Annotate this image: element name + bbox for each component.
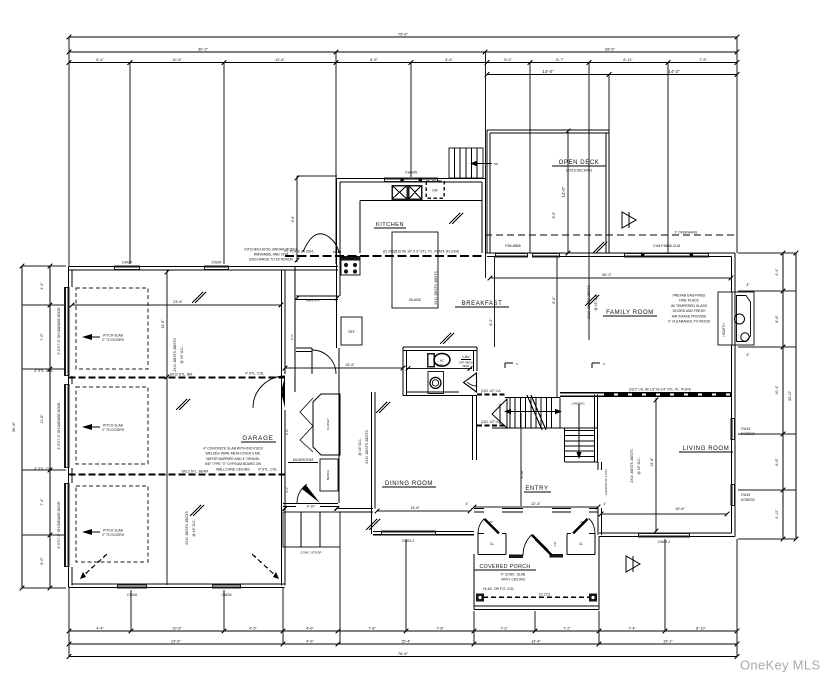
- svg-text:1/2 COL.: 1/2 COL.: [539, 593, 552, 597]
- left dimension string inner: [49, 266, 51, 588]
- front door sill west: [509, 555, 523, 558]
- svg-text:9'-0"X7'-0" OH GARAGE DOOR: 9'-0"X7'-0" OH GARAGE DOOR: [57, 402, 61, 450]
- svg-text:8'-2": 8'-2": [489, 318, 493, 326]
- right dimension string inner: [782, 253, 784, 539]
- dimension line 14'-0" / 14'-2" deck string: [487, 74, 737, 76]
- garage door 1 panel: [64, 287, 70, 376]
- porch column west: [476, 594, 484, 602]
- breakfast vertical dim: [494, 257, 496, 347]
- svg-text:WALLS AND CEILING: WALLS AND CEILING: [216, 467, 250, 471]
- svg-text:CL: CL: [490, 542, 494, 546]
- overhang dashed line: [485, 234, 737, 236]
- svg-text:PANTRY: PANTRY: [306, 299, 321, 303]
- range stove: [341, 257, 360, 276]
- svg-text:HEARTH: HEARTH: [722, 323, 726, 337]
- svg-text:2" CLEARANCE TO WOOD: 2" CLEARANCE TO WOOD: [668, 320, 711, 324]
- svg-text:3'-6": 3'-6": [285, 487, 289, 493]
- svg-text:5'-0": 5'-0": [504, 58, 512, 62]
- bottom dimension string overall 76'-6": [69, 656, 737, 658]
- kitchen east wall: [485, 179, 487, 254]
- svg-text:(2)12" LVL W/ 1/2"X9 1/4" STL.: (2)12" LVL W/ 1/2"X9 1/4" STL. PL. PLATE: [629, 388, 692, 392]
- svg-text:8'-11": 8'-11": [623, 58, 633, 62]
- svg-text:REF: REF: [348, 330, 354, 334]
- living room vertical dim: [655, 398, 657, 532]
- deck west edge: [486, 130, 488, 253]
- garage window CW2 north-left: [114, 266, 140, 271]
- family room interior dim 36'-2": [490, 277, 732, 279]
- svg-text:8'-6": 8'-6": [552, 211, 556, 219]
- window CW15 egress upper: [731, 418, 736, 440]
- svg-text:16X16 DECKING: 16X16 DECKING: [566, 169, 593, 173]
- svg-text:4": 4": [604, 502, 607, 506]
- svg-text:2' OVERHANG: 2' OVERHANG: [675, 231, 698, 235]
- toilet: [428, 354, 434, 367]
- svg-text:BREAKFAST: BREAKFAST: [462, 301, 503, 307]
- svg-text:4" CONC. SLAB: 4" CONC. SLAB: [501, 573, 526, 577]
- living room south wall: [599, 536, 735, 538]
- kitchen north wall: [337, 178, 486, 180]
- svg-text:8'-6": 8'-6": [552, 296, 556, 304]
- svg-text:@ 16" O.C.: @ 16" O.C.: [180, 346, 184, 363]
- svg-text:7'-4": 7'-4": [628, 627, 636, 631]
- svg-text:(2)12 1/2" LVL: (2)12 1/2" LVL: [481, 389, 501, 393]
- svg-text:KITCHEN: KITCHEN: [376, 222, 404, 228]
- garage corner diagonal right: [252, 554, 277, 577]
- svg-text:DOORS AND FRESH: DOORS AND FRESH: [673, 309, 706, 313]
- pitch slab note bay 3: [82, 529, 92, 535]
- porch west edge: [473, 554, 475, 610]
- entry closet east: [567, 533, 571, 535]
- dimension line top third string: [69, 62, 737, 64]
- svg-text:CLOSET: CLOSET: [326, 418, 330, 430]
- pitch slab note bay 1: [82, 334, 92, 340]
- right dimension string overall 32'-0": [795, 253, 797, 539]
- garage bay 1 dashed outline: [76, 288, 148, 369]
- svg-text:76'-6": 76'-6": [398, 651, 409, 656]
- svg-text:CW15: CW15: [741, 427, 750, 431]
- svg-text:4" STL. COL.: 4" STL. COL.: [245, 372, 265, 376]
- svg-text:RH+M: RH+M: [333, 250, 342, 254]
- svg-text:RMV64666, AND CFM: RMV64666, AND CFM: [254, 253, 288, 257]
- deck south slash mark: [593, 242, 604, 253]
- svg-text:4'-4": 4'-4": [40, 282, 44, 290]
- svg-text:CL: CL: [579, 542, 583, 546]
- left extension ticks: [22, 265, 66, 267]
- fireplace box: [732, 292, 754, 345]
- garage to mudroom door: [253, 376, 285, 408]
- svg-text:4'-6": 4'-6": [306, 640, 314, 644]
- bottom extension lines: [68, 588, 70, 657]
- breakfast east vertical dim: [556, 257, 558, 397]
- svg-text:36'-2": 36'-2": [602, 273, 612, 277]
- svg-text:@ 16" O.C.: @ 16" O.C.: [192, 519, 196, 536]
- east exterior wall upper: [734, 253, 736, 537]
- svg-text:23'-6": 23'-6": [173, 300, 183, 304]
- left dimension string overall 36'-8": [21, 266, 23, 588]
- svg-text:PREFAB GAS-FIRED: PREFAB GAS-FIRED: [673, 294, 706, 298]
- svg-text:PITCH SLAB: PITCH SLAB: [103, 424, 124, 428]
- stoop outline: [283, 512, 340, 547]
- svg-text:5/8" TYPE "X" GYPSUM BOARD ON: 5/8" TYPE "X" GYPSUM BOARD ON: [205, 462, 261, 466]
- wall lav to entry: [472, 396, 474, 461]
- lav interior dim: [406, 368, 472, 370]
- svg-text:30'-2": 30'-2": [198, 47, 209, 52]
- garage window CW2 south-right: [212, 584, 241, 589]
- pantry south wall with opening: [296, 347, 312, 349]
- svg-text:2X10 JOISTS JOISTS: 2X10 JOISTS JOISTS: [365, 429, 369, 463]
- deck stairs: [449, 148, 483, 178]
- kitchen wall west extension dim: [297, 175, 337, 177]
- front door leaf: [532, 535, 552, 556]
- dimension line top second string: [69, 51, 737, 53]
- refrigerator box: [341, 317, 362, 345]
- dining interior dim: [377, 510, 470, 512]
- steel plate wall kitchen dashed: [285, 255, 485, 257]
- extension line at x=130: [129, 63, 131, 265]
- svg-text:FIRE PLACE: FIRE PLACE: [679, 299, 700, 303]
- svg-text:DN: DN: [494, 162, 498, 166]
- stair lower arrow: [578, 404, 580, 455]
- extension line at x=224: [223, 63, 225, 265]
- svg-text:2" TO DOORS: 2" TO DOORS: [102, 338, 125, 342]
- svg-text:36'-8": 36'-8": [11, 421, 16, 432]
- svg-text:7'-9": 7'-9": [699, 58, 707, 62]
- dimension line 75'-6" overall top: [69, 36, 737, 38]
- mudroom bench: [320, 459, 338, 491]
- mudroom closet bifold door: [300, 398, 313, 452]
- extension line at x=336: [335, 52, 337, 264]
- pitch slab note bay 2: [82, 424, 92, 430]
- svg-text:7'-8": 7'-8": [368, 627, 376, 631]
- entry corner flag east: [591, 363, 593, 368]
- entry corner flag west: [504, 363, 506, 368]
- garage interior dimension 23'-6": [72, 304, 281, 306]
- mudroom dim 4'-10": [283, 506, 288, 511]
- svg-text:EGRESS: EGRESS: [741, 498, 756, 502]
- svg-text:VENT: VENT: [462, 364, 470, 368]
- kitchen sink right: [409, 186, 422, 200]
- svg-text:PITCH SLAB: PITCH SLAB: [103, 529, 124, 533]
- stair LVL dashed lower: [477, 425, 507, 427]
- svg-text:CW2#: CW2#: [222, 593, 232, 597]
- svg-text:15'-4": 15'-4": [401, 640, 411, 644]
- svg-text:CW2#: CW2#: [122, 261, 132, 265]
- svg-text:GARAGE: GARAGE: [242, 435, 273, 442]
- svg-text:15'-6": 15'-6": [345, 363, 355, 367]
- bottom dimension string second: [69, 643, 737, 645]
- svg-text:9'-6": 9'-6": [291, 215, 295, 223]
- wall jog mudroom to dining: [338, 508, 373, 510]
- extension line at x=530: [529, 63, 531, 254]
- svg-text:DINING ROOM: DINING ROOM: [385, 481, 433, 487]
- svg-text:PL. PLATE (FLUSH): PL. PLATE (FLUSH): [285, 250, 314, 254]
- svg-text:6'-6": 6'-6": [96, 58, 104, 62]
- svg-text:4": 4": [466, 502, 469, 506]
- divider wall double line: [560, 392, 732, 394]
- garage bay 3 dashed outline: [76, 486, 148, 562]
- dining south wall: [373, 534, 474, 536]
- window CU8-F6868-CU8: [624, 252, 709, 257]
- dining west wall: [371, 392, 373, 534]
- svg-text:6'-0": 6'-0": [40, 557, 44, 565]
- french door F66-8868: [495, 252, 528, 257]
- svg-text:13'-6": 13'-6": [410, 506, 420, 510]
- garage door 3 panel: [64, 483, 70, 567]
- deck north edge: [487, 129, 609, 131]
- svg-text:F66-8868: F66-8868: [505, 244, 520, 248]
- garage east wall: [281, 270, 283, 586]
- svg-text:2X10 JOISTS JOISTS: 2X10 JOISTS JOISTS: [630, 448, 634, 482]
- mudroom exterior door: [297, 484, 307, 503]
- svg-text:2" TO DOORS: 2" TO DOORS: [102, 428, 125, 432]
- svg-text:W/ TEMPERED GLASS: W/ TEMPERED GLASS: [671, 304, 708, 308]
- breakfast interior dim 15'-6": [285, 367, 403, 369]
- kitchen counter edge: [360, 200, 482, 202]
- svg-text:BENCH: BENCH: [326, 470, 330, 481]
- svg-text:15'-6": 15'-6": [675, 507, 685, 511]
- svg-text:6'-7": 6'-7": [556, 58, 564, 62]
- front door sill east: [550, 554, 564, 558]
- svg-text:7'-2": 7'-2": [500, 627, 508, 631]
- garage south wall: [69, 587, 285, 589]
- svg-text:14'-0": 14'-0": [561, 186, 566, 197]
- lav north wall: [403, 346, 477, 348]
- porch south edge: [474, 605, 599, 607]
- svg-text:2'-8": 2'-8": [553, 541, 557, 546]
- mudroom south wall: [283, 503, 338, 505]
- garage bay 2 dashed outline: [76, 387, 148, 464]
- stair direction arrow: [508, 411, 558, 413]
- garage window CW2 south-left: [117, 584, 147, 589]
- svg-text:9'-0"X7'-0" OH GARAGE DOOR: 9'-0"X7'-0" OH GARAGE DOOR: [57, 501, 61, 549]
- svg-text:ISLAND: ISLAND: [409, 298, 422, 302]
- garage structural dashed line upper: [69, 377, 286, 379]
- svg-text:4'-4": 4'-4": [775, 268, 779, 276]
- svg-text:COVERED PORCH: COVERED PORCH: [479, 564, 530, 570]
- svg-text:7'-8": 7'-8": [436, 627, 444, 631]
- porch east edge: [598, 537, 600, 610]
- north wall pantry strip: [285, 266, 339, 268]
- svg-text:75'-6": 75'-6": [398, 32, 409, 37]
- svg-text:4" CONCRETE SLAB WITH 6X6 #101: 4" CONCRETE SLAB WITH 6X6 #1010: [203, 447, 263, 451]
- dining slash marks: [376, 402, 387, 413]
- svg-text:11'-6": 11'-6": [161, 319, 165, 329]
- svg-text:2" TO DOORS: 2" TO DOORS: [102, 533, 125, 537]
- stair break mark: [527, 395, 542, 430]
- svg-text:6X12 STL. BM.: 6X12 STL. BM.: [170, 373, 193, 377]
- svg-text:7'-0": 7'-0": [40, 333, 44, 341]
- pantry door arc: [312, 350, 336, 374]
- stair lower flight: [565, 429, 595, 431]
- svg-text:6'-6": 6'-6": [775, 315, 779, 323]
- svg-text:24": 24": [489, 520, 493, 524]
- kitchen sink left: [392, 186, 407, 200]
- svg-text:8'-10": 8'-10": [696, 627, 706, 631]
- svg-text:(2) 2X6@16 W/ 10" X 3" STL. PL: (2) 2X6@16 W/ 10" X 3" STL. PL. PLATE (F…: [383, 250, 459, 254]
- lav east wall: [476, 347, 478, 371]
- svg-text:MUDROOM: MUDROOM: [293, 458, 313, 462]
- svg-text:32'-0": 32'-0": [787, 390, 792, 401]
- svg-text:24'-6": 24'-6": [171, 640, 181, 644]
- hood flex duct curve: [303, 234, 339, 253]
- svg-text:15'-8": 15'-8": [650, 457, 654, 466]
- svg-text:8'-6": 8'-6": [445, 58, 453, 62]
- garage structural dashed line lower: [69, 474, 286, 476]
- garage joist slash mark bay3: [190, 505, 201, 516]
- stair LVL dashed upper: [477, 394, 507, 396]
- svg-text:6'-6": 6'-6": [775, 458, 779, 466]
- svg-text:AIR INTAKE PROVIDE: AIR INTAKE PROVIDE: [672, 314, 708, 318]
- svg-text:4" STL. COL.: 4" STL. COL.: [34, 467, 54, 471]
- family room slash mark: [585, 295, 596, 306]
- svg-text:4'-5": 4'-5": [249, 627, 257, 631]
- stair upper flight: [505, 397, 560, 399]
- porch column line dashed: [483, 596, 590, 598]
- entry closet west door: [485, 519, 500, 534]
- svg-text:CW2#: CW2#: [127, 593, 137, 597]
- garage west wall: [68, 267, 70, 588]
- svg-text:WELDED WIRE MESH OVER 6 MIL: WELDED WIRE MESH OVER 6 MIL: [205, 452, 260, 456]
- pantry west wall: [294, 266, 296, 392]
- stair landing: [559, 398, 561, 429]
- svg-text:HI-4D. OR F.G. COL.: HI-4D. OR F.G. COL.: [483, 587, 515, 591]
- svg-text:14'-4": 14'-4": [531, 640, 541, 644]
- lav washer: [428, 372, 444, 394]
- garage north wall: [69, 266, 285, 268]
- dining south window CW#3-2: [381, 531, 436, 536]
- extension line at x=609 deck corner: [608, 75, 610, 131]
- triangle marker lower: [626, 556, 640, 572]
- porch column east: [589, 594, 597, 602]
- svg-text:7'-2": 7'-2": [563, 627, 571, 631]
- svg-text:CW2#: CW2#: [212, 261, 222, 265]
- svg-text:12'-4": 12'-4": [531, 502, 541, 506]
- stair door pentagon: [492, 399, 507, 428]
- pantry shelf wall: [296, 295, 338, 297]
- svg-text:(2)12 1/2" LVL: (2)12 1/2" LVL: [481, 420, 501, 424]
- svg-text:28'-6": 28'-6": [605, 47, 616, 52]
- svg-text:2X10 JOISTS JOISTS: 2X10 JOISTS JOISTS: [185, 510, 189, 544]
- breakfast slash mark: [440, 333, 451, 344]
- svg-text:10'-6": 10'-6": [172, 58, 182, 62]
- svg-text:LIVING ROOM: LIVING ROOM: [683, 446, 730, 452]
- svg-text:10'-4": 10'-4": [775, 385, 779, 395]
- svg-text:VINYL CEILING: VINYL CEILING: [501, 578, 526, 582]
- garage joist slash mark bay2: [176, 399, 187, 410]
- mudroom closet: [313, 394, 340, 455]
- svg-text:2X10 JOISTS JOISTS: 2X10 JOISTS JOISTS: [173, 337, 177, 371]
- svg-text:CW345: CW345: [405, 171, 417, 175]
- svg-text:OneKey MLS: OneKey MLS: [740, 658, 820, 673]
- svg-text:4" STL. COL.: 4" STL. COL.: [258, 468, 278, 472]
- svg-text:24": 24": [580, 520, 584, 524]
- living room west wall: [597, 462, 599, 470]
- svg-text:14'-2": 14'-2": [668, 69, 680, 74]
- svg-text:8'-5": 8'-5": [370, 58, 378, 62]
- svg-text:WC: WC: [440, 360, 444, 363]
- svg-text:4" STL. COL.: 4" STL. COL.: [34, 369, 54, 373]
- svg-text:CU8-F6868-CU8: CU8-F6868-CU8: [653, 244, 680, 248]
- window CW15 egress lower: [731, 484, 736, 506]
- house north wall: [485, 252, 735, 254]
- kitchen joist slash mark: [449, 213, 460, 224]
- svg-text:CW#3-2: CW#3-2: [658, 540, 671, 544]
- garage door 2 panel: [64, 384, 70, 468]
- lav west wall: [402, 347, 404, 396]
- lav south wall: [403, 395, 477, 397]
- garage joist slash mark upper: [192, 292, 203, 303]
- svg-text:4'-10": 4'-10": [307, 505, 316, 509]
- svg-text:CONC. STOOP: CONC. STOOP: [301, 551, 322, 555]
- living room interior dim: [601, 513, 727, 515]
- svg-text:ENTRY: ENTRY: [525, 486, 548, 492]
- svg-text:LANDING: LANDING: [571, 402, 585, 406]
- garage window CW2 north-right: [204, 266, 229, 271]
- entry dim 12'-4": [474, 506, 598, 508]
- svg-text:@ 16" O.C.: @ 16" O.C.: [358, 438, 362, 455]
- garage corner diagonal left: [82, 554, 107, 577]
- triangle marker upper: [622, 212, 636, 228]
- entry vertical dim: [520, 413, 522, 506]
- svg-text:11'-6": 11'-6": [40, 414, 44, 424]
- svg-text:9'-10": 9'-10": [520, 469, 524, 479]
- divider wall beam dashed: [604, 394, 732, 396]
- svg-text:DISCHARGE TO EXTERIOR: DISCHARGE TO EXTERIOR: [249, 258, 294, 262]
- svg-text:4'-4": 4'-4": [96, 627, 104, 631]
- entry south wall: [474, 508, 484, 510]
- svg-text:CW#3-2: CW#3-2: [402, 539, 415, 543]
- svg-text:@ 16" O.C.: @ 16" O.C.: [637, 457, 641, 474]
- entry closet west: [478, 533, 484, 535]
- svg-text:2'-6": 2'-6": [437, 364, 443, 368]
- svg-text:5'-6": 5'-6": [290, 334, 294, 340]
- svg-text:PITCH SLAB: PITCH SLAB: [103, 334, 124, 338]
- svg-text:4'-11": 4'-11": [775, 509, 779, 519]
- dishwasher dashed box: [426, 181, 444, 198]
- extension line at x=589: [588, 63, 590, 341]
- svg-text:(HEATED SF 1,100): (HEATED SF 1,100): [604, 469, 608, 494]
- svg-text:5'-8": 5'-8": [285, 429, 289, 435]
- deck east edge: [608, 130, 610, 253]
- extension line at x=411: [410, 63, 412, 178]
- extension line at x=485.5: [485, 52, 487, 278]
- svg-text:LAV: LAV: [462, 354, 470, 359]
- svg-text:CW15: CW15: [741, 493, 750, 497]
- right extension ticks: [738, 252, 796, 254]
- mudroom east wall: [338, 348, 340, 503]
- fireplace hearth: [718, 292, 732, 345]
- svg-text:14'-0": 14'-0": [542, 69, 554, 74]
- svg-text:EGRESS: EGRESS: [741, 432, 756, 436]
- svg-text:15'-1": 15'-1": [663, 640, 673, 644]
- svg-text:12'-6": 12'-6": [275, 58, 285, 62]
- garage center structural line: [166, 270, 168, 585]
- svg-text:10'-6": 10'-6": [172, 627, 182, 631]
- svg-text:VAPOR BARRIER AND 4" GRAVEL: VAPOR BARRIER AND 4" GRAVEL: [206, 457, 260, 461]
- svg-text:7'-4": 7'-4": [40, 498, 44, 506]
- svg-text:DW: DW: [432, 189, 437, 193]
- stair east wall: [594, 395, 596, 463]
- svg-text:6X12 STL. BEAM: 6X12 STL. BEAM: [182, 470, 209, 474]
- svg-text:OPEN DECK: OPEN DECK: [559, 160, 600, 166]
- svg-text:4'-6": 4'-6": [306, 627, 314, 631]
- kitchen island: [392, 232, 438, 308]
- svg-text:9'-0"X7'-0" OH GARAGE DOOR: 9'-0"X7'-0" OH GARAGE DOOR: [57, 307, 61, 355]
- kitchen window CW345: [384, 178, 438, 183]
- extension line at x=69: [68, 37, 70, 266]
- entry closet east door: [573, 519, 588, 534]
- kitchen west wall upper: [336, 179, 338, 349]
